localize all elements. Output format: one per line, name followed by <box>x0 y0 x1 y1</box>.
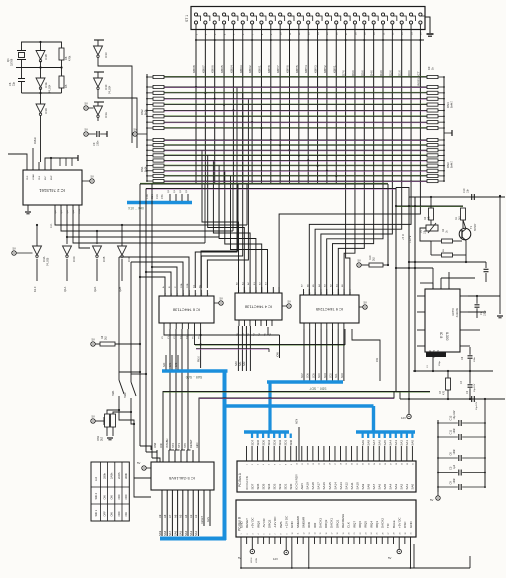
capacitor C4 10u <box>469 371 471 384</box>
svg-text:SD7: SD7 <box>250 483 254 489</box>
wire IC4 enable bend to IOW <box>267 327 269 335</box>
transistor T1 BC547 <box>459 228 471 240</box>
svg-text:BC547: BC547 <box>474 223 477 231</box>
svg-text:RESET: RESET <box>189 439 193 448</box>
svg-text:LOAD: LOAD <box>32 174 35 180</box>
ground IC2 <box>27 205 29 211</box>
svg-text:SA8: SA8 <box>163 530 167 536</box>
svg-text:RCO: RCO <box>79 208 81 213</box>
svg-text:CLK: CLK <box>347 522 351 528</box>
svg-text:5V: 5V <box>92 415 96 419</box>
GAL top pins <box>156 450 158 462</box>
supply circle 5V bottom left <box>251 544 253 549</box>
svg-text:KBX6: KBX6 <box>211 65 215 73</box>
IC IC2 74LS161 <box>23 170 82 205</box>
svg-text:SD6: SD6 <box>256 439 260 445</box>
svg-text:D6X: D6X <box>351 70 355 76</box>
wire staircase D-lines to IC9 <box>346 184 350 296</box>
svg-text:19: 19 <box>343 533 345 535</box>
wire feed y206 <box>396 205 463 207</box>
svg-text:INTABH: INTABH <box>165 439 169 448</box>
svg-text:GND: GND <box>239 521 243 529</box>
svg-text:SY1: SY1 <box>177 443 181 448</box>
svg-text:4: 4 <box>258 534 260 535</box>
supply circle IC2 <box>90 179 94 183</box>
svg-text:A4: A4 <box>184 514 188 518</box>
svg-text:74LS05: 74LS05 <box>47 257 50 266</box>
svg-text:SA3: SA3 <box>189 530 193 536</box>
wire y268 cross <box>396 267 433 269</box>
svg-text:SA7: SA7 <box>372 440 376 446</box>
crystal Q1 32.768kHz <box>17 50 26 52</box>
svg-text:12V: 12V <box>401 416 406 420</box>
svg-text:SD2: SD2 <box>278 483 282 489</box>
svg-text:6: 6 <box>274 464 276 465</box>
svg-text:15: 15 <box>320 533 322 535</box>
svg-text:R5: R5 <box>64 84 68 88</box>
svg-text:12: 12 <box>307 463 309 465</box>
svg-text:2: 2 <box>252 464 254 465</box>
wire IC1F output route <box>98 94 137 148</box>
svg-text:27: 27 <box>390 463 392 465</box>
svg-text:SD2: SD2 <box>330 373 333 378</box>
svg-text:18: 18 <box>337 533 339 535</box>
svg-text:C9: C9 <box>92 142 96 146</box>
svg-text:IOW: IOW <box>153 442 157 448</box>
svg-text:30: 30 <box>407 463 409 465</box>
svg-text:C5: C5 <box>449 466 453 470</box>
svg-text:5V: 5V <box>430 498 434 502</box>
svg-text:D3X: D3X <box>379 70 383 76</box>
svg-text:6: 6 <box>269 534 271 535</box>
svg-text:5V: 5V <box>358 259 362 263</box>
svg-text:0WS: 0WS <box>279 521 283 528</box>
blue bus branch to PC-Bus A right <box>225 404 374 408</box>
svg-text:SA17: SA17 <box>317 482 321 490</box>
svg-text:12V: 12V <box>273 557 278 561</box>
svg-text:C11: C11 <box>449 429 453 434</box>
svg-text:14: 14 <box>318 463 320 465</box>
wire node y371 <box>413 370 493 372</box>
svg-text:IC1E: IC1E <box>44 82 48 88</box>
svg-text:SW1: SW1 <box>111 390 115 396</box>
svg-text:27: 27 <box>388 533 390 535</box>
svg-text:KBY7: KBY7 <box>276 65 280 73</box>
svg-text:A9: A9 <box>158 514 162 518</box>
svg-text:CLK: CLK <box>39 175 41 180</box>
svg-text:SD6: SD6 <box>256 483 260 489</box>
svg-text:IRQ4: IRQ4 <box>369 521 373 528</box>
power rails inner pair <box>408 197 410 399</box>
power rail +5V <box>387 184 389 265</box>
svg-text:SD1: SD1 <box>335 373 338 378</box>
svg-text:+12V DC: +12V DC <box>285 515 289 528</box>
svg-text:C1K: C1K <box>151 194 154 199</box>
wire staircase bus to IC4 <box>202 150 239 293</box>
svg-text:IOW: IOW <box>276 351 279 357</box>
svg-text:IC1F: IC1F <box>104 84 108 90</box>
svg-text:31: 31 <box>413 463 415 465</box>
IC2 bottom pins <box>54 205 56 214</box>
svg-text:SD0: SD0 <box>341 373 344 378</box>
svg-text:SA1: SA1 <box>239 361 242 366</box>
svg-text:IOR: IOR <box>376 357 379 362</box>
wire 12V node bottom <box>400 398 505 400</box>
svg-text:QC: QC <box>61 210 63 214</box>
supply circle and resistor R10 <box>357 263 361 267</box>
svg-text:C9: C9 <box>449 481 453 485</box>
svg-text:IRQ6: IRQ6 <box>358 521 362 528</box>
svg-text:10µ 16V: 10µ 16V <box>476 401 478 410</box>
svg-text:D7X: D7X <box>342 70 346 76</box>
inverter IC1E <box>36 78 45 87</box>
svg-text:ST 1: ST 1 <box>185 15 189 22</box>
long verticals to decoder region <box>139 184 141 446</box>
svg-text:IC 6 74HCT138: IC 6 74HCT138 <box>173 308 200 313</box>
svg-text:RESET: RESET <box>245 518 249 528</box>
svg-text:7: 7 <box>275 534 277 535</box>
svg-text:IRQ3: IRQ3 <box>375 521 379 528</box>
wire switches top <box>119 371 140 373</box>
svg-text:DACK2: DACK2 <box>381 518 385 528</box>
svg-text:1: 1 <box>241 534 243 535</box>
svg-text:280h: 280h <box>102 473 106 479</box>
svg-text:GND: GND <box>290 521 294 529</box>
svg-text:2A0h: 2A0h <box>110 472 114 479</box>
capacitor C6 100n <box>438 457 458 459</box>
connector ST1 <box>191 7 425 30</box>
bus horizontal lines <box>164 76 427 78</box>
svg-text:OFF: OFF <box>117 511 121 517</box>
svg-text:SUBSTR: SUBSTR <box>455 308 457 318</box>
capacitor C8 100n <box>469 347 471 355</box>
svg-text:QD: QD <box>55 210 57 214</box>
svg-text:D0X: D0X <box>407 70 411 76</box>
svg-text:SD7: SD7 <box>250 439 254 445</box>
table DIP switch settings <box>91 462 129 521</box>
blue bus X10-X40 <box>127 201 192 204</box>
svg-text:A7: A7 <box>168 514 172 518</box>
svg-text:KBY2: KBY2 <box>323 65 327 73</box>
svg-text:18: 18 <box>341 463 343 465</box>
svg-text:150µ: 150µ <box>439 360 441 366</box>
svg-text:74LS04: 74LS04 <box>109 85 112 94</box>
wire bus drops from ST1 <box>195 40 197 184</box>
svg-text:IOR: IOR <box>159 443 163 448</box>
svg-text:100n: 100n <box>474 356 476 362</box>
supply circle 5V bottom right <box>398 544 400 549</box>
svg-text:RESET: RESET <box>201 515 204 524</box>
svg-text:SA13: SA13 <box>339 482 343 490</box>
svg-text:19: 19 <box>346 463 348 465</box>
svg-text:ON: ON <box>102 495 106 499</box>
svg-text:+5V DC: +5V DC <box>398 517 402 528</box>
svg-text:IOW: IOW <box>307 522 311 528</box>
svg-text:C6: C6 <box>8 82 12 86</box>
svg-text:28: 28 <box>396 463 398 465</box>
svg-text:5V: 5V <box>91 175 95 179</box>
svg-text:FEEDB: FEEDB <box>451 308 453 316</box>
stubs into SA blue bus <box>165 355 167 370</box>
svg-text:IC1B: IC1B <box>44 54 48 60</box>
svg-text:SA7: SA7 <box>372 483 376 489</box>
wire common line under ST1 <box>196 39 424 41</box>
svg-text:SD5: SD5 <box>261 439 265 445</box>
svg-text:R6: R6 <box>64 56 68 60</box>
svg-text:IO CH RDY: IO CH RDY <box>295 474 299 490</box>
svg-text:ENT: ENT <box>45 175 47 180</box>
IC IC9 74HCT245 <box>300 295 359 323</box>
inverter IC3D <box>63 246 72 255</box>
wire top analog <box>409 196 505 198</box>
svg-text:C1R: C1R <box>156 194 159 199</box>
svg-text:OFF: OFF <box>102 511 106 517</box>
svg-text:SD0 .. SD7: SD0 .. SD7 <box>309 387 326 391</box>
svg-text:K1.0: K1.0 <box>33 286 37 292</box>
svg-text:KBY5: KBY5 <box>295 65 299 73</box>
blue feeder to data pins <box>268 430 271 433</box>
svg-text:KBX1: KBX1 <box>257 65 261 73</box>
svg-text:74LS04: 74LS04 <box>49 84 52 93</box>
svg-text:D2X: D2X <box>388 70 392 76</box>
svg-text:8: 8 <box>285 464 287 465</box>
svg-text:8x4k7: 8x4k7 <box>450 161 454 168</box>
supply circle left rail <box>133 132 137 136</box>
svg-text:KBX3: KBX3 <box>239 65 243 73</box>
svg-text:GND: GND <box>409 521 413 529</box>
svg-text:470: 470 <box>443 390 446 395</box>
capacitor C6 22p <box>18 78 25 80</box>
supply circle GAL <box>142 466 146 470</box>
svg-text:22: 22 <box>360 533 362 535</box>
svg-text:IC1A: IC1A <box>104 112 108 118</box>
svg-text:KBY4: KBY4 <box>304 65 308 73</box>
svg-text:BALE: BALE <box>392 520 396 528</box>
svg-text:KBY8: KBY8 <box>267 65 271 73</box>
inverter IC3A <box>33 246 42 255</box>
right rail of resistor networks <box>443 77 445 181</box>
svg-text:SA7: SA7 <box>168 530 172 536</box>
svg-text:Q2A: Q2A <box>93 287 97 292</box>
wire IC1C output route <box>98 62 132 143</box>
svg-text:SA9: SA9 <box>361 440 365 446</box>
svg-text:RN2: RN2 <box>140 109 144 115</box>
GAL pins RESET AEN <box>203 490 205 526</box>
svg-text:5V: 5V <box>85 102 89 106</box>
blue bus over PC-Bus A address pins <box>356 430 415 434</box>
resistor R7 470 <box>447 371 449 378</box>
svg-text:2C0h: 2C0h <box>117 472 121 479</box>
svg-text:A2: A2 <box>194 514 198 518</box>
svg-text:32768: 32768 <box>10 58 14 66</box>
wire IC2 top connections <box>8 154 27 162</box>
svg-text:26: 26 <box>382 533 384 535</box>
svg-text:9: 9 <box>291 464 293 465</box>
svg-text:SD3: SD3 <box>324 373 327 378</box>
svg-text:28: 28 <box>394 533 396 535</box>
wires GAL top up to logic <box>163 392 430 451</box>
wire inputs to IC3 gates <box>36 225 38 246</box>
capacitor C7 100p <box>468 295 474 297</box>
svg-text:100n: 100n <box>453 449 456 455</box>
svg-text:5V: 5V <box>13 247 17 251</box>
svg-text:SD0: SD0 <box>289 483 293 489</box>
svg-text:D5X: D5X <box>360 70 364 76</box>
svg-text:REFRESH: REFRESH <box>341 514 345 528</box>
svg-text:KBX5: KBX5 <box>220 65 224 73</box>
svg-text:21: 21 <box>354 533 356 535</box>
svg-text:DACK3: DACK3 <box>318 518 322 528</box>
svg-text:SD5: SD5 <box>312 373 315 378</box>
svg-text:HIGH: HIGH <box>251 557 253 563</box>
wire AEN up from PC-Bus A <box>298 427 300 461</box>
svg-text:SA12: SA12 <box>344 482 348 490</box>
resistor network RN2 left <box>153 75 164 78</box>
svg-text:SA1: SA1 <box>405 440 409 446</box>
wire right end ground rail <box>413 544 415 568</box>
svg-text:2k2: 2k2 <box>105 335 108 340</box>
svg-text:SD1: SD1 <box>284 483 288 489</box>
wire oscillator top <box>22 42 62 48</box>
wire IC9 enable <box>352 329 380 381</box>
svg-text:SA0: SA0 <box>163 362 166 367</box>
svg-text:DRQ3: DRQ3 <box>324 519 328 528</box>
svg-text:PN16: PN16 <box>199 356 201 362</box>
svg-text:23: 23 <box>365 533 367 535</box>
wires channel IC6 to GAL <box>169 329 171 450</box>
svg-text:A6: A6 <box>173 514 177 518</box>
svg-text:SA5: SA5 <box>383 483 387 489</box>
svg-text:SD1: SD1 <box>284 439 288 445</box>
wire output Q1A <box>66 259 68 281</box>
svg-text:T/C: T/C <box>386 522 390 528</box>
switch SW2 <box>130 262 132 382</box>
power rail +12V <box>395 188 397 393</box>
svg-text:1: 1 <box>247 464 249 465</box>
svg-text:QB: QB <box>67 210 69 214</box>
GAL bottom pins <box>161 490 163 536</box>
svg-text:SW2: SW2 <box>123 392 127 398</box>
wire emitter line y255 <box>431 254 442 256</box>
svg-text:C6: C6 <box>449 452 453 456</box>
svg-text:470k: 470k <box>69 55 72 61</box>
svg-text:SA1: SA1 <box>405 483 409 489</box>
connector PC-Bus B <box>236 500 416 537</box>
resistor R5 470k <box>59 76 64 88</box>
svg-text:SA5: SA5 <box>383 440 387 446</box>
svg-text:SA2: SA2 <box>243 361 246 366</box>
wire trimmer wiper loop <box>420 228 431 241</box>
supply circle 12V bottom <box>285 544 287 550</box>
capacitor C9 100n <box>438 486 458 488</box>
svg-text:SD6: SD6 <box>307 373 310 378</box>
inverter IC1F <box>97 72 99 78</box>
supply circle and resistor R8 2k2 <box>91 342 95 346</box>
blue bus bottom L to GAL <box>160 537 226 541</box>
wire IC6 pin7 up right <box>201 184 238 296</box>
blue bus over PC-Bus A data pins <box>244 430 289 434</box>
wire risers from staircase to bus <box>204 184 206 243</box>
capacitor C10 10n <box>471 194 473 200</box>
svg-text:AEN: AEN <box>195 443 199 448</box>
svg-text:SA9 .. SA0: SA9 .. SA0 <box>186 375 203 379</box>
svg-text:IC1D: IC1D <box>44 108 48 114</box>
svg-text:IRQ7: IRQ7 <box>352 521 356 528</box>
capacitor bank rails <box>437 420 439 492</box>
svg-text:SA18: SA18 <box>311 482 315 490</box>
svg-text:300h: 300h <box>124 473 128 479</box>
svg-text:SD3: SD3 <box>272 483 276 489</box>
left rail of resistor networks <box>146 74 148 181</box>
svg-text:C7K: C7K <box>161 194 164 199</box>
svg-text:5V: 5V <box>85 128 89 132</box>
svg-text:13: 13 <box>313 463 315 465</box>
svg-text:IRQ9: IRQ9 <box>256 521 260 528</box>
svg-text:A8: A8 <box>163 514 167 518</box>
svg-text:30: 30 <box>405 533 407 535</box>
svg-text:SW 2: SW 2 <box>94 492 98 499</box>
svg-text:16: 16 <box>326 533 328 535</box>
svg-text:24: 24 <box>374 463 376 465</box>
svg-text:IC 5 GAL16V8: IC 5 GAL16V8 <box>168 476 195 481</box>
IC IC4 74HCT138 <box>235 293 282 320</box>
wire GAL left loop <box>134 478 151 497</box>
svg-text:SA6: SA6 <box>378 483 382 489</box>
svg-text:+5 V: +5 V <box>401 234 405 240</box>
svg-text:17: 17 <box>332 533 334 535</box>
svg-text:25: 25 <box>379 463 381 465</box>
svg-text:2k2: 2k2 <box>459 215 462 220</box>
svg-text:QA: QA <box>72 210 75 214</box>
wire IC2 outputs staircase <box>55 214 247 225</box>
svg-text:SA4: SA4 <box>389 440 393 446</box>
capacitor C5 1µ0 <box>438 472 458 474</box>
wire switches to GAL loop <box>119 404 134 478</box>
svg-text:11: 11 <box>302 463 304 465</box>
svg-text:C12: C12 <box>449 415 453 420</box>
svg-text:A5: A5 <box>179 514 183 518</box>
supply circle IC3 row <box>12 251 16 255</box>
svg-text:29: 29 <box>401 463 403 465</box>
svg-text:SA6: SA6 <box>173 530 177 536</box>
svg-text:5V: 5V <box>92 338 96 342</box>
svg-text:IC 8: IC 8 <box>439 332 443 338</box>
ground right of ST1 <box>425 17 430 33</box>
svg-text:20: 20 <box>352 463 354 465</box>
svg-text:SMEMW: SMEMW <box>296 516 300 528</box>
svg-text:5V: 5V <box>134 128 138 132</box>
svg-text:IO CH CK: IO CH CK <box>245 476 249 489</box>
svg-text:IL300: IL300 <box>445 332 449 341</box>
svg-text:IC3B: IC3B <box>103 256 106 262</box>
capacitor C9 100n decoupling <box>84 132 88 136</box>
svg-text:RN4: RN4 <box>446 102 450 108</box>
inverter IC1C <box>97 40 99 46</box>
resistor R3 10k <box>430 197 432 208</box>
resistor R1 2k2 <box>461 208 466 220</box>
svg-text:SW 1: SW 1 <box>94 509 98 516</box>
svg-text:+5V DC: +5V DC <box>251 517 255 528</box>
svg-text:SA14: SA14 <box>333 482 337 490</box>
svg-text:4MHz: 4MHz <box>33 137 37 144</box>
svg-text:13: 13 <box>309 533 311 535</box>
svg-text:SA11: SA11 <box>350 482 354 489</box>
svg-text:SA2: SA2 <box>194 530 198 536</box>
svg-text:SA2: SA2 <box>400 483 404 489</box>
svg-text:SA15: SA15 <box>328 482 332 490</box>
svg-text:D1X: D1X <box>398 70 402 76</box>
resistor network RN4 right <box>427 75 438 78</box>
